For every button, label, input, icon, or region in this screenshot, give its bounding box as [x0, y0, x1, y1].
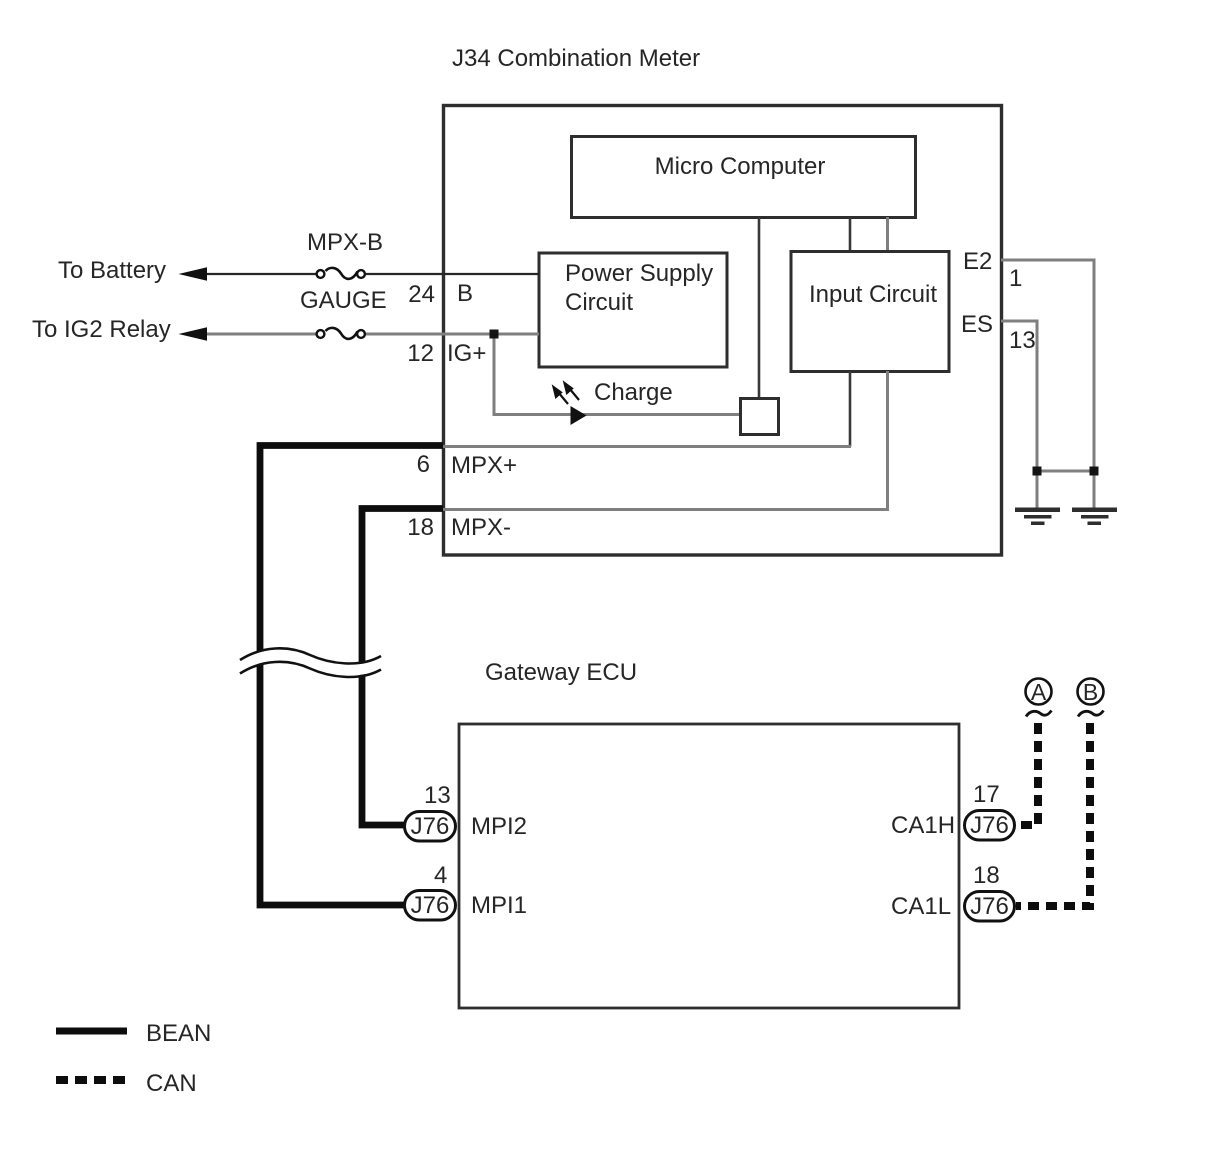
charge lamp box	[741, 399, 779, 435]
svg-text:MPX-B: MPX-B	[307, 229, 383, 256]
svg-text:J34 Combination Meter: J34 Combination Meter	[452, 45, 700, 72]
svg-text:MPI2: MPI2	[471, 813, 527, 840]
svg-text:J76: J76	[970, 893, 1009, 920]
node B circle	[1078, 679, 1104, 706]
power supply circuit box	[539, 253, 727, 367]
svg-text:17: 17	[973, 781, 1000, 808]
wire input circuit to MPX-	[886, 371, 889, 510]
svg-text:MPI1: MPI1	[471, 892, 527, 919]
diode arrow on charge wire	[571, 406, 587, 425]
connector J76 MPI1	[405, 891, 456, 921]
wire MPX+ internal	[443, 445, 851, 448]
svg-text:GAUGE: GAUGE	[300, 287, 387, 314]
svg-text:Input Circuit: Input Circuit	[809, 281, 937, 308]
legend CAN line	[56, 1076, 126, 1084]
legend BEAN line	[56, 1028, 127, 1035]
fuse GAUGE	[316, 327, 366, 341]
svg-text:CA1H: CA1H	[891, 812, 955, 839]
wire IG+ to IG2 relay	[204, 333, 539, 336]
svg-text:CAN: CAN	[146, 1070, 197, 1097]
wire ES to ground	[1001, 321, 1037, 509]
wire B to battery	[204, 273, 539, 275]
svg-text:IG+: IG+	[447, 340, 486, 367]
node A circle	[1026, 679, 1052, 706]
CAN wire CA1L to B	[1016, 723, 1090, 906]
wire E2 to ground	[1001, 260, 1094, 509]
wire MPX- internal	[443, 508, 889, 511]
svg-text:Gateway ECU: Gateway ECU	[485, 659, 637, 686]
arrow to IG2 relay	[179, 327, 208, 340]
svg-text:4: 4	[434, 862, 447, 889]
micro computer box	[572, 137, 916, 218]
BEAN wire MPX- to MPI2	[362, 509, 443, 826]
svg-text:Circuit: Circuit	[565, 289, 633, 316]
svg-text:J76: J76	[411, 892, 450, 919]
CAN wire CA1H to A	[1016, 723, 1038, 825]
connector J76 MPI2	[405, 812, 456, 842]
svg-text:18: 18	[407, 514, 434, 541]
svg-text:J76: J76	[411, 813, 450, 840]
svg-text:13: 13	[1009, 327, 1036, 354]
combination meter box J34	[444, 106, 1002, 556]
svg-text:A: A	[1031, 679, 1047, 705]
svg-text:Power Supply: Power Supply	[565, 260, 713, 287]
svg-text:To Battery: To Battery	[58, 257, 166, 284]
svg-text:Charge: Charge	[594, 379, 673, 406]
svg-text:24: 24	[408, 281, 435, 308]
svg-text:Micro Computer: Micro Computer	[655, 153, 826, 180]
connector J76 CA1H	[965, 811, 1015, 841]
svg-text:12: 12	[407, 340, 434, 367]
wire micro computer to input circuit right	[886, 217, 889, 251]
arrow to battery	[179, 267, 208, 280]
node junction ES ground	[1033, 467, 1042, 476]
break mark under A	[1026, 711, 1052, 717]
ground symbol left	[1015, 508, 1060, 526]
wire micro computer to input circuit left	[849, 217, 852, 251]
svg-text:BEAN: BEAN	[146, 1020, 211, 1047]
svg-text:1: 1	[1009, 265, 1022, 292]
wire ground link	[1037, 470, 1094, 473]
svg-text:E2: E2	[963, 248, 992, 275]
svg-text:To IG2 Relay: To IG2 Relay	[32, 316, 171, 343]
svg-text:B: B	[1083, 679, 1098, 705]
BEAN wire MPX+ to MPI1	[260, 446, 443, 906]
svg-text:CA1L: CA1L	[891, 893, 951, 920]
wire IG+ junction down to charge lamp	[494, 334, 739, 415]
svg-text:J76: J76	[970, 812, 1009, 839]
node junction on IG+ wire	[490, 330, 499, 339]
wire micro computer to charge lamp	[758, 217, 761, 397]
fuse MPX-B	[316, 267, 366, 281]
input circuit box	[791, 252, 949, 372]
gateway ECU box	[459, 724, 959, 1008]
svg-text:MPX+: MPX+	[451, 452, 517, 479]
node junction E2 ground	[1090, 467, 1099, 476]
svg-text:13: 13	[424, 782, 451, 809]
break mark under B	[1078, 711, 1104, 717]
svg-text:ES: ES	[961, 311, 993, 338]
ground symbol right	[1072, 508, 1117, 526]
LED light arrows	[554, 383, 580, 404]
svg-text:B: B	[457, 280, 473, 307]
svg-text:18: 18	[973, 862, 1000, 889]
wire break mark	[240, 648, 381, 677]
svg-text:6: 6	[417, 451, 430, 478]
svg-text:MPX-: MPX-	[451, 514, 511, 541]
wire input circuit to MPX+	[849, 371, 852, 447]
connector J76 CA1L	[965, 892, 1015, 922]
